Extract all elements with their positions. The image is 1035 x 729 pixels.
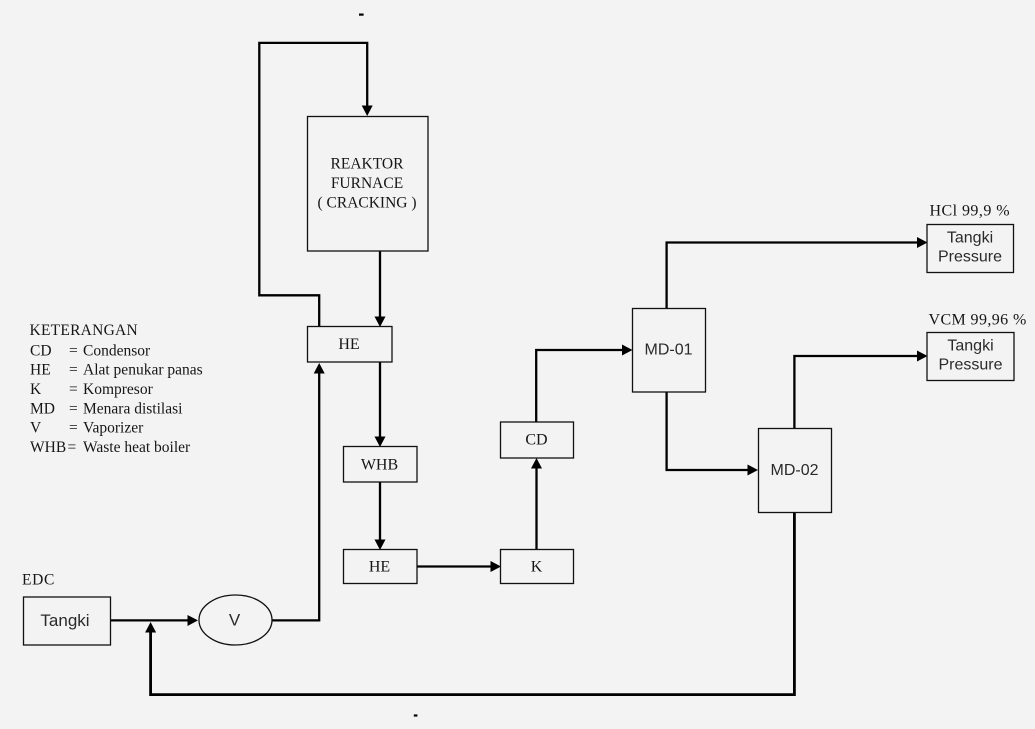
svg-text:=: = [69,381,78,398]
label REAKTOR FURNACE (CRACKING) [317,156,416,212]
svg-text:Tangki: Tangki [947,338,993,355]
svg-text:Tangki: Tangki [40,611,89,630]
arrowhead into MD-02 left [748,465,759,476]
box HE2 [344,550,418,584]
svg-text:Condensor: Condensor [83,342,151,359]
box MD-01 [633,309,706,393]
arrowhead into HE2 top [375,540,386,551]
svg-text:=: = [69,362,78,379]
arrowhead into VCM tank left [917,351,928,362]
label Tangki Pressure (VCM) [938,338,1002,374]
svg-text:HE: HE [30,362,51,379]
svg-text:K: K [531,559,543,576]
wire reactor to HE [379,252,381,318]
svg-text:=: = [69,342,78,359]
box reactor furnace [308,117,429,252]
svg-text:FURNACE: FURNACE [331,175,403,192]
svg-text:V: V [30,420,42,437]
box WHB [344,447,418,483]
svg-text:CD: CD [525,432,547,449]
svg-text:=: = [69,420,78,437]
wire MD-02 bottom recycle return [151,513,795,695]
vaporizer V ellipse [199,595,272,645]
svg-text:HE: HE [338,336,359,353]
svg-text:=: = [69,400,78,417]
dash mark top [359,14,364,16]
svg-text:HCl 99,9 %: HCl 99,9 % [930,203,1011,220]
wire WHB to HE2 [379,482,381,540]
svg-text:HE: HE [369,559,390,576]
svg-text:Vaporizer: Vaporizer [83,420,144,437]
svg-text:CD: CD [30,342,52,359]
arrowhead into CD bottom [531,458,542,469]
svg-text:MD: MD [30,400,55,417]
box K [501,550,574,584]
svg-text:MD-02: MD-02 [770,462,818,479]
svg-text:WHB: WHB [30,439,66,456]
box Tangki Pressure VCM [927,333,1014,381]
svg-text:Waste heat boiler: Waste heat boiler [83,439,191,456]
arrowhead into reactor top [362,106,373,117]
box HE1 [308,327,393,363]
arrowhead into MD-01 left [622,345,633,356]
box Tangki EDC [24,597,111,645]
wire MD-01 to MD-02 [667,392,748,470]
wire recycle HE to reactor (up-over loop) [259,43,367,327]
wire Tangki EDC to V [111,619,189,621]
svg-text:=: = [68,439,77,456]
label Tangki Pressure (HCl) [938,230,1002,266]
svg-text:MD-01: MD-01 [644,342,692,359]
svg-text:Menara distilasi: Menara distilasi [83,400,183,417]
wire MD-01 to HCl tank [667,243,918,309]
arrowhead into HCl tank left [917,237,928,248]
svg-text:Pressure: Pressure [938,249,1002,266]
svg-text:VCM 99,96 %: VCM 99,96 % [929,312,1027,329]
wire CD to MD-01 [536,350,622,422]
dash mark bottom [414,714,418,716]
svg-text:KETERANGAN: KETERANGAN [30,322,138,339]
svg-text:( CRACKING ): ( CRACKING ) [317,195,416,212]
arrowhead up joining feed line [145,622,156,633]
svg-text:Kompresor: Kompresor [83,381,154,398]
svg-text:Tangki: Tangki [947,230,993,247]
arrowhead into HE bottom [314,363,325,374]
wire HE to WHB [379,362,381,437]
legend KETERANGAN [30,322,203,456]
svg-text:Alat penukar panas: Alat penukar panas [83,362,203,379]
box Tangki Pressure HCl [927,225,1014,273]
arrowhead into WHB top [375,437,386,448]
wire MD-02 to VCM tank [794,356,917,429]
wire V to HE (up) [272,373,319,620]
box CD [501,422,574,458]
wire K to CD [535,468,537,549]
svg-text:EDC: EDC [22,572,55,589]
svg-text:K: K [30,381,42,398]
wire HE2 to K [417,565,491,567]
arrowhead into K left [491,561,502,572]
arrowhead into HE top [375,317,386,328]
box MD-02 [759,429,832,513]
svg-text:WHB: WHB [361,457,398,474]
arrowhead into V left [188,615,199,626]
svg-text:Pressure: Pressure [938,357,1002,374]
svg-text:V: V [229,611,241,630]
svg-text:REAKTOR: REAKTOR [331,156,405,173]
